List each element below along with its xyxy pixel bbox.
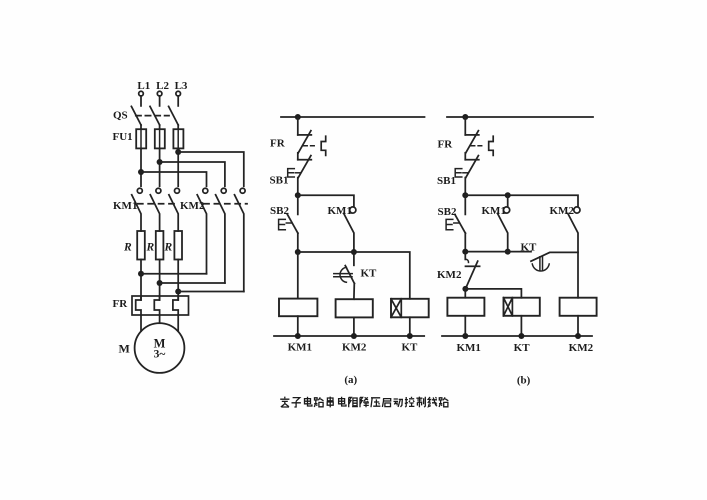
wire QS to FU1 column3 [177,125,179,129]
svg-text:KM2: KM2 [550,205,575,217]
node top bus tap (b) [462,114,468,120]
wire FR to motor 2 [159,315,161,323]
wire to KM1 coil (a) [297,252,299,299]
wire QS to FU1 column2 [159,125,161,129]
wire bus to FR contact (b) [464,117,466,135]
contactor link dashed KM2 [204,203,247,205]
node SB2 top (b) [462,192,468,198]
wire KT coil to bottom bus (a) [409,317,411,336]
svg-text:SB2: SB2 [438,206,457,218]
contactor KM1 pole1 [137,188,142,193]
wire L2 tap to KM2 pole2 [160,162,225,186]
fuse FU1 element 2 [159,129,161,149]
terminal L1 [139,91,144,96]
button SB1 NC contact (a) [298,159,312,161]
FR heater element 1 [136,296,141,315]
button SB2 NO (a) [297,195,299,214]
contactor KM2 pole3 [240,188,245,193]
wire L1 to QS [140,96,142,106]
svg-text:KM1: KM1 [328,205,352,217]
node KM2 coil bottom (b) [575,333,581,339]
contact KM1 aux NO (a) [350,207,356,213]
node row (b) mid [505,249,511,255]
wire top bus (b) [447,116,593,118]
wire KM2 coil to bottom bus (b) [577,316,579,336]
SB1 actuator E (b) [455,169,462,177]
svg-text:QS: QS [113,110,128,122]
node KM2 pole1 join [138,271,144,277]
svg-text:M: M [119,342,130,356]
SB1 linkage dash (a) [295,172,300,174]
wire top bus (a) [281,116,425,118]
svg-text:(a): (a) [344,374,357,386]
svg-text:KM1: KM1 [113,200,137,212]
svg-text:KM1: KM1 [456,342,480,354]
wire L3 to QS [177,96,179,106]
wire node to aux branches (b) [465,195,578,207]
contactor KM2 pole1 [203,188,208,193]
contactor KM2 pole2 [221,188,226,193]
svg-text:KM2: KM2 [569,342,594,354]
contact KM1 aux NO (b) [507,195,509,207]
wire bus to FR contact (a) [297,117,299,135]
coil KM2 (b) [560,298,597,316]
svg-text:SB1: SB1 [437,175,456,187]
svg-text:(b): (b) [517,375,531,387]
SB2 linkage dash (b) [454,222,459,224]
svg-text:FR: FR [113,298,129,310]
contactor link dashed KM1 [138,203,179,205]
resistor R phase3 [174,231,182,260]
svg-text:KM1: KM1 [482,205,506,217]
wire node row (b) [465,251,531,253]
wire KM2 pole2 join [160,282,225,284]
svg-text:R: R [146,242,155,254]
node row (a) left [295,249,301,255]
svg-text:L3: L3 [175,80,188,92]
FR heater element 3 [173,296,178,315]
wire L2 to QS [159,96,161,106]
wire KT coil to bottom bus (b) [520,316,522,336]
wire fuse1 down to KM1 contact [140,149,142,187]
coil KM2 (a) [336,299,373,317]
resistor R phase1 [137,231,145,260]
node L1 tap [138,169,144,175]
node KM1 coil bottom (a) [295,333,301,339]
wire FR to SB1 (a) [297,153,299,160]
wire SB1 to node (b) [464,178,466,196]
SB2 actuator E (a) [279,219,286,229]
FR trip actuator bracket (b) [489,136,494,155]
wire resistor3 to FR [177,260,179,301]
wire KM2 coil to bottom bus (a) [353,317,355,336]
svg-text:KM2: KM2 [437,269,462,281]
fuse FU1 element 1 [140,129,142,149]
switch QS pole 1 blade [131,106,141,125]
button SB1 NC contact (b) [465,159,479,161]
SB1 linkage dash (b) [463,172,468,174]
contact KT NC delayed (b) [531,252,578,261]
node KM1 coil bottom (b) [462,333,468,339]
switch QS pole 2 blade [150,106,160,125]
terminal L3 [176,91,181,96]
node SB2 top (a) [295,192,301,198]
wire QS to FU1 column1 [140,125,142,129]
thermal relay FR box [132,296,189,315]
KT delay arc (a) [340,267,346,282]
wire bottom bus (b) [442,335,592,337]
svg-text:FU1: FU1 [113,131,133,143]
switch QS link dashed [136,115,169,117]
svg-text:L1: L1 [137,80,150,92]
svg-text:KT: KT [521,242,538,254]
wire fuse2 down to KM1 contact [159,149,161,187]
node row (b) left [462,249,468,255]
FR trip actuator bracket (a) [321,136,326,155]
node KT coil bottom (a) [407,333,413,339]
node KT coil bottom (b) [518,333,524,339]
coil KT (a) with timer box [391,299,429,318]
contact KT NO delayed (a) [353,252,355,265]
svg-text:FR: FR [438,139,454,151]
coil KT (b) with timer box [504,298,540,316]
coil KM1 (a) [279,299,317,317]
node KM2 pole2 join [157,280,163,286]
wire L1 tap to KM2 pole1 [141,172,207,186]
wire bottom bus (a) [274,335,424,337]
wire fuse3 down to KM1 contact [177,149,179,187]
terminal L2 [157,91,162,96]
svg-text:KM1: KM1 [288,342,312,354]
wire node row (a) [298,252,410,299]
svg-text:R: R [164,242,173,254]
resistor R phase2 [156,231,164,260]
switch QS pole 3 blade [169,106,179,125]
svg-text:KM2: KM2 [342,342,367,354]
wire FR to motor 3 [177,315,179,331]
node KM2 NC bottom (b) [462,286,468,292]
node KM2 pole3 join [175,289,181,295]
SB2 actuator E (b) [446,219,453,229]
FR heater element 2 [154,296,159,315]
SB2 linkage dash (a) [286,222,291,224]
node KM1 aux top (b) [505,192,511,198]
button SB2 NO (b) [464,195,466,214]
wire KM2 pole1 join [141,273,207,275]
contact KM2 aux NO (b) [574,207,580,213]
svg-text:KM2: KM2 [180,200,205,212]
wire KM1 coil to bottom bus (b) [464,316,466,336]
svg-text:SB1: SB1 [270,175,289,187]
svg-text:3~: 3~ [154,349,166,361]
wire KM1 coil to bottom bus (a) [297,316,299,336]
motor M circle [135,323,185,373]
contactor KM1 pole2 [156,188,161,193]
svg-text:KT: KT [514,342,531,354]
svg-text:SB2: SB2 [270,205,289,217]
node row (a) mid [351,249,357,255]
wire SB1 to node (a) [297,178,299,196]
breaker FR NC contact (a) [298,134,312,136]
wire KM2 NC to KT coil (b) [465,289,521,298]
breaker FR NC contact (b) [465,134,479,136]
wire resistor1 to FR [140,260,142,301]
wire FR to motor 1 [140,315,142,331]
wire FR to SB1 (b) [464,153,466,160]
contact KM2 NC (b) [464,252,466,260]
svg-text:FR: FR [270,138,286,150]
coil KM1 (b) [447,298,484,316]
svg-text:R: R [123,242,132,254]
wire KM2 pole3 join [178,291,244,293]
svg-text:KT: KT [401,342,418,354]
svg-text:L2: L2 [156,80,169,92]
contactor KM1 pole3 [175,188,180,193]
caption text: 定子电路串电阻降压启动控制线路 [280,397,448,408]
wire node to KM1 aux branch (a) [298,195,354,207]
node L2 tap [157,159,163,165]
FR trip linkage dashed (a) [304,145,318,147]
wire resistor2 to FR [159,260,161,301]
wire L3 tap to KM2 pole3 [178,152,244,186]
fuse FU1 element 3 [177,129,179,149]
svg-text:KT: KT [361,268,378,280]
node KM2 coil bottom (a) [351,333,357,339]
wire to KM1 coil (b) [464,289,466,298]
node top bus tap (a) [295,114,301,120]
KT delay cup (b) [540,256,543,270]
SB1 actuator E (a) [288,169,295,177]
FR trip linkage dashed (b) [471,145,485,147]
node L3 tap [175,149,181,155]
